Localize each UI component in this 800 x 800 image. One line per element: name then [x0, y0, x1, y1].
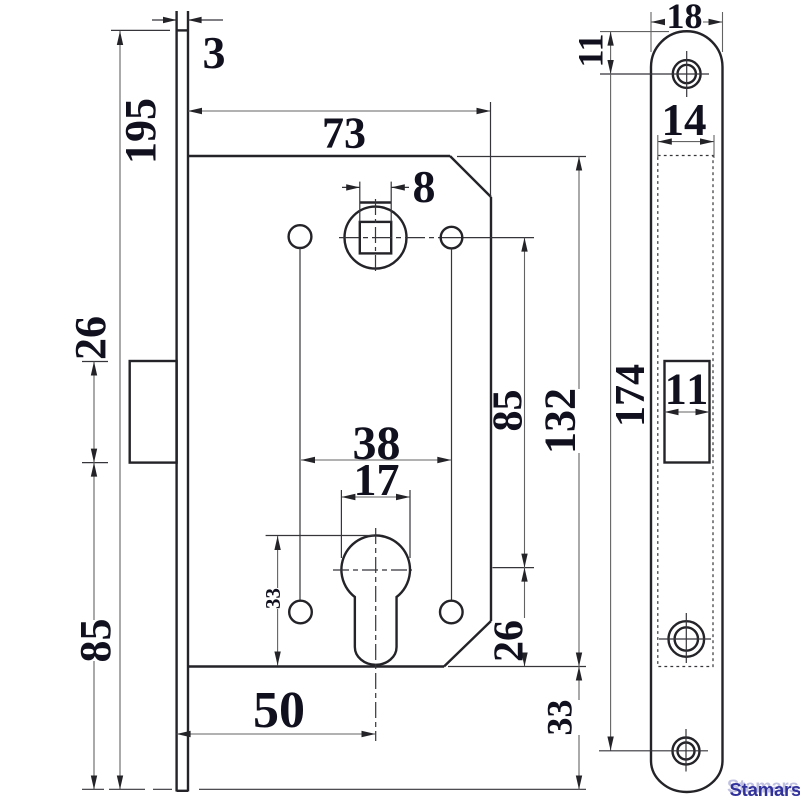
dim 85 bottom arrow — [91, 776, 97, 790]
dim 85 right bottom arrow — [521, 554, 527, 568]
svg-text:11: 11 — [571, 33, 611, 67]
dim 8 right extension — [390, 182, 392, 222]
lower left fixing hole — [289, 601, 312, 624]
lock body bottom edge — [188, 665, 444, 667]
upper right fixing hole — [441, 227, 463, 249]
left holes connecting line — [299, 248, 301, 601]
dim 14 right arrow — [700, 138, 714, 144]
dim 8 left extension — [359, 182, 361, 222]
dim 132 line upper part — [578, 157, 580, 390]
dim 132 line middle part — [578, 453, 580, 700]
dim 18 line left part — [651, 21, 665, 23]
dim 14 left extension — [657, 135, 659, 158]
dim 17 left arrow — [341, 494, 355, 500]
faceplate edge left line — [175, 11, 177, 792]
dim 174 bottom arrow — [607, 737, 613, 751]
dim 17 line — [341, 496, 410, 498]
dim 33 top extension — [266, 535, 374, 537]
dim 50 right arrow — [362, 731, 376, 737]
dim 17 right arrow — [396, 494, 410, 500]
bottom screw centre extension — [599, 750, 708, 752]
lock body bottom-right chamfer — [444, 621, 491, 667]
bottom screw vertical centerline — [685, 729, 687, 772]
upper left fixing hole — [289, 225, 312, 248]
dim 33 bottom-right top arrow — [576, 667, 582, 681]
bottom baseline tick under dim 85 line — [82, 788, 104, 790]
svg-text:85: 85 — [486, 390, 532, 432]
dim 132 bottom arrow — [576, 653, 582, 667]
cylinder vertical centerline — [375, 528, 377, 741]
lock body top-right chamfer — [450, 156, 491, 197]
dim 38 right arrow — [437, 457, 451, 463]
dim 33 top arrow — [274, 536, 280, 550]
dim 26 bottom-right line lower stub — [524, 663, 526, 667]
dim 17 right extension — [409, 490, 411, 558]
svg-text:3: 3 — [203, 27, 226, 78]
dim 18 left arrow — [651, 19, 665, 25]
handle hub circle — [345, 207, 407, 269]
dim 8 right arrow — [391, 184, 405, 190]
dim 18 right arrow — [709, 19, 723, 25]
top screw centre extension — [600, 73, 709, 75]
dim 50 line — [177, 733, 376, 735]
bottom baseline short piece left of faceplate — [153, 788, 172, 790]
middle screw hole inner — [675, 627, 698, 650]
faceplate top tick — [177, 29, 188, 31]
bottom baseline extension — [199, 788, 586, 790]
dim 17 left extension — [340, 490, 342, 558]
dim 26 upper-left line — [93, 362, 95, 621]
svg-text:26: 26 — [66, 316, 115, 360]
dim 26 bottom arrow — [91, 449, 97, 463]
dim 14 line — [658, 141, 714, 143]
svg-text:50: 50 — [253, 682, 305, 739]
lock body right edge — [490, 197, 492, 621]
dim 3 left arrow — [163, 17, 177, 23]
svg-text:174: 174 — [608, 364, 654, 427]
spindle square hole 8x8 — [360, 222, 391, 254]
bottom screw hole inner — [678, 743, 695, 760]
top screw vertical centerline — [686, 51, 688, 97]
dim 85 top arrow — [91, 463, 97, 477]
dim 85 left line — [93, 661, 95, 790]
lock body top edge — [188, 155, 450, 157]
svg-text:132: 132 — [536, 388, 585, 454]
dim 73 line — [188, 110, 491, 112]
dim 73 right extension — [490, 102, 492, 197]
dim 26 bottom-right bottom arrow — [521, 653, 527, 667]
dim 3 right arrow — [188, 17, 202, 23]
middle screw hole outer — [669, 621, 705, 657]
dim 73 left arrow — [188, 108, 202, 114]
middle screw horizontal centerline — [659, 638, 711, 640]
dim 50 left arrow — [177, 731, 191, 737]
dim 11 cutout line — [665, 411, 710, 413]
euro cylinder hole — [341, 535, 410, 664]
svg-text:18: 18 — [667, 0, 703, 36]
dim 85 right top arrow — [521, 238, 527, 252]
dim 3 line left tail — [152, 19, 177, 21]
top screw hole outer — [673, 60, 701, 88]
dim 26 bottom-right top arrow — [521, 568, 527, 582]
faceplate recess dashed rectangle — [658, 156, 713, 667]
svg-text:8: 8 — [413, 161, 436, 212]
dim 11 top / dim 174 shared line — [610, 32, 612, 751]
dim 18 left extension — [650, 12, 652, 52]
dim 14 right extension — [713, 135, 715, 158]
dim 11 cutout right arrow — [696, 409, 710, 415]
body bottom edge right extension — [448, 666, 586, 668]
dim 26 top arrow — [91, 362, 97, 376]
dim 38 left arrow — [301, 457, 315, 463]
dim 132 top arrow — [576, 157, 582, 171]
svg-text:Stamars: Stamars — [727, 776, 799, 797]
spindle follower upper line — [360, 201, 391, 203]
middle screw vertical centerline — [685, 613, 687, 663]
faceplate outline — [651, 31, 723, 792]
dim 8 right tail — [391, 186, 409, 188]
dim 73 right arrow — [477, 108, 491, 114]
dim 85 right line — [524, 238, 526, 618]
plate top extension — [600, 31, 669, 33]
cylinder centre right extension — [493, 567, 535, 569]
dim 195 line — [119, 31, 121, 790]
latch bolt (side view) — [130, 361, 177, 463]
dim 38 line — [301, 459, 451, 461]
bottom screw hole outer — [673, 738, 700, 765]
dim 195 top extension — [111, 29, 170, 31]
cylinder horizontal centerline — [333, 569, 412, 571]
latch cutout rectangle — [665, 361, 710, 463]
svg-text:33: 33 — [540, 700, 580, 736]
top screw hole inner — [678, 65, 696, 83]
dim 3 line right tail — [188, 19, 223, 21]
dim 11 bottom arrow — [607, 60, 613, 74]
svg-text:73: 73 — [322, 109, 366, 158]
dim 8 left tail — [342, 186, 360, 188]
hub horizontal centerline solid part — [443, 237, 534, 239]
dim 195 top arrow — [117, 31, 123, 45]
dim 26 / 85 shared extension tick — [82, 462, 108, 464]
svg-text:11: 11 — [665, 365, 711, 414]
svg-text:14: 14 — [662, 95, 707, 145]
faceplate bottom tick — [177, 790, 188, 792]
dim 8 left arrow — [346, 184, 360, 190]
dim 33 line lower part — [277, 609, 279, 666]
svg-text:85: 85 — [71, 619, 120, 663]
dim 26 upper-left top extension tick — [82, 361, 108, 363]
faceplate edge right line — [187, 11, 189, 792]
lower right fixing hole — [440, 601, 463, 624]
dim 33 bottom-right line lower part — [578, 735, 580, 790]
bottom baseline tick under dim 195 line — [109, 788, 145, 790]
dim 18 right extension — [722, 12, 724, 52]
hub vertical centerline — [375, 199, 377, 274]
dim 33 bottom-right bottom arrow — [576, 776, 582, 790]
right holes connecting line — [451, 249, 453, 602]
dim 14 left arrow — [658, 138, 672, 144]
svg-text:17: 17 — [354, 454, 400, 505]
body top edge right extension — [457, 156, 586, 158]
dim 33 bottom arrow — [274, 652, 280, 666]
svg-text:33: 33 — [261, 588, 285, 609]
dim 11 top arrow — [607, 32, 613, 46]
dim 11 cutout left arrow — [665, 409, 679, 415]
dim 18 line right part — [703, 21, 723, 23]
svg-text:195: 195 — [116, 98, 165, 164]
hub horizontal centerline dashed part — [339, 237, 443, 239]
dim 195 bottom arrow — [117, 776, 123, 790]
dim 33 line upper part — [277, 536, 279, 588]
svg-text:26: 26 — [487, 620, 533, 662]
